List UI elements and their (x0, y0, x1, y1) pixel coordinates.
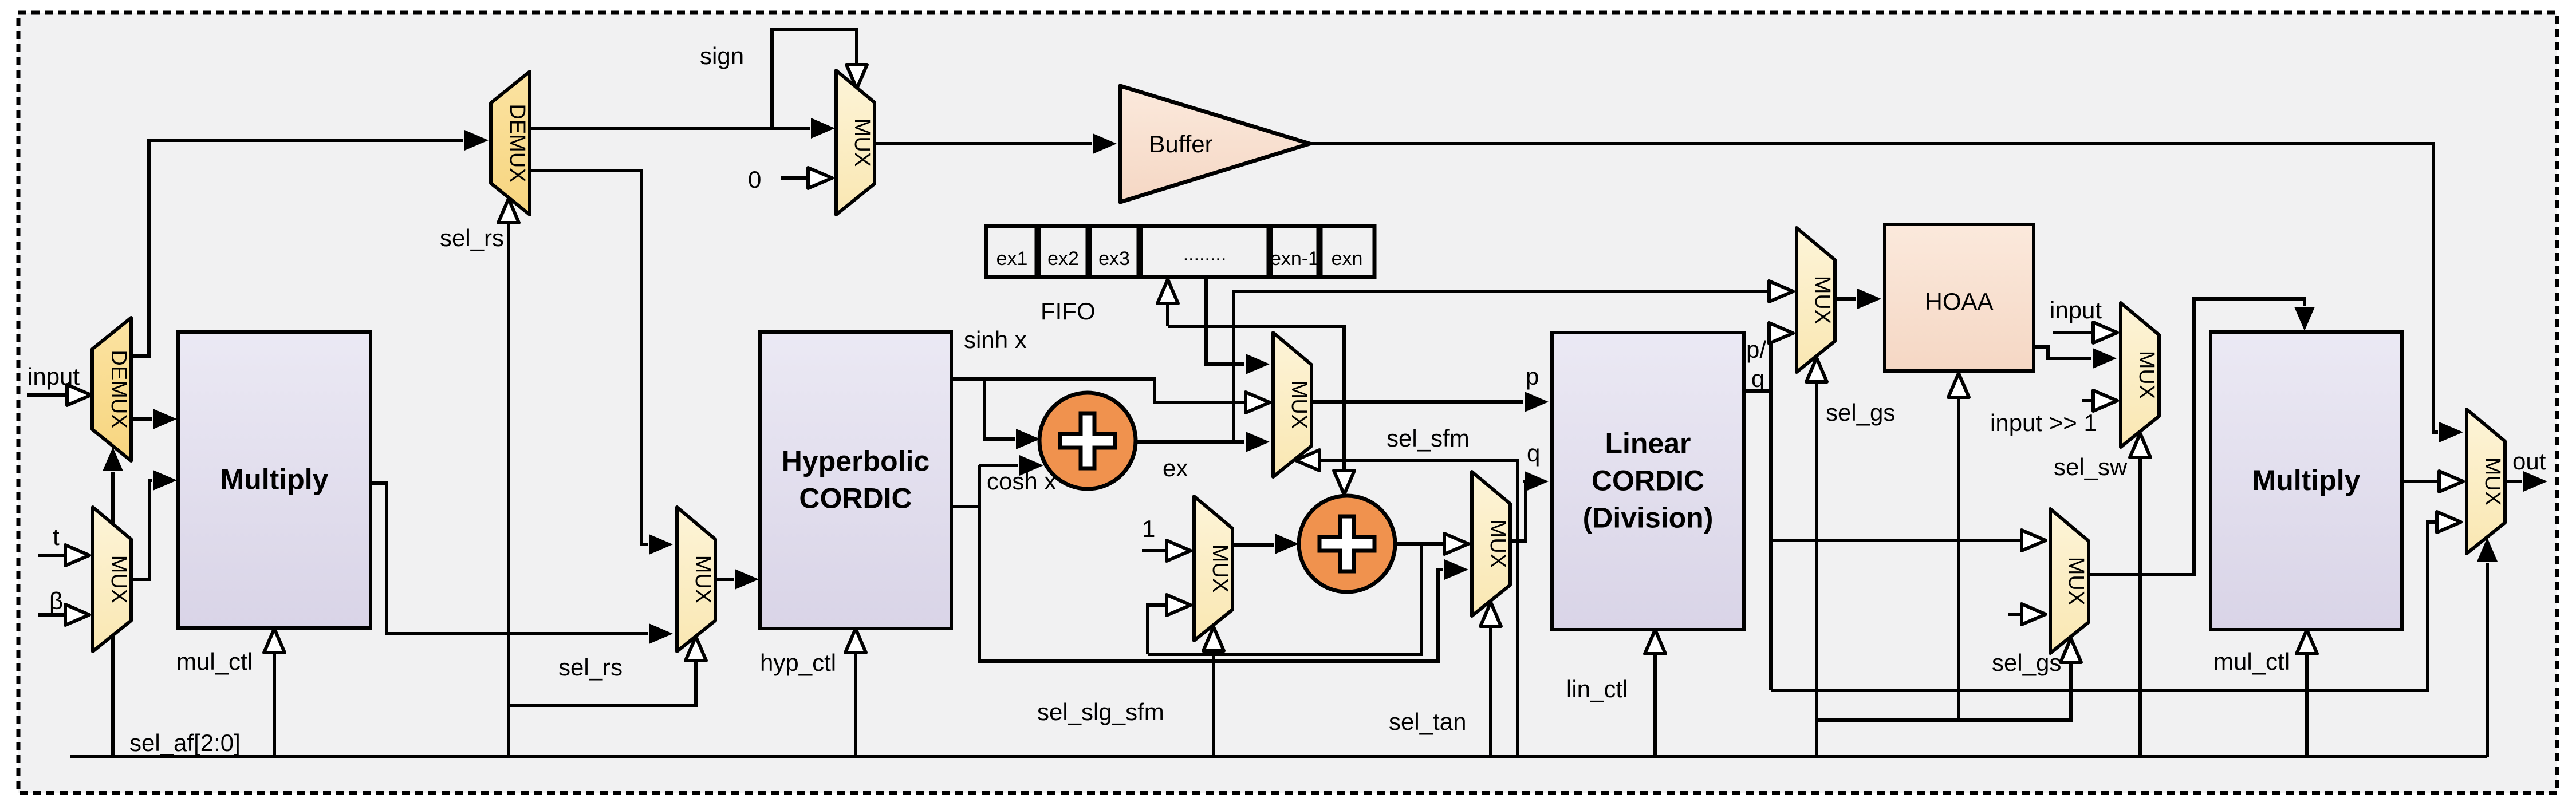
svg-text:p/: p/ (1746, 336, 1766, 363)
svg-text:sel_gs: sel_gs (1992, 649, 2061, 676)
wire adder A2 out to MUX U6 (1395, 542, 1443, 546)
wire sel_sfm to MUX U4 select (1321, 460, 1518, 757)
arrowhead input into MUX U8q (2093, 322, 2117, 343)
wire input stub to MUX U8q (2053, 331, 2092, 334)
wire Multiply M2 out to MUX U10 (2402, 480, 2438, 483)
arrowhead into MUX U5 input2 (1167, 595, 1191, 615)
svg-text:sel_rs: sel_rs (440, 224, 504, 251)
arrowhead into MUX U8q input2 (2093, 348, 2117, 369)
arrowhead into MUX U8 input1 (2022, 530, 2046, 551)
svg-text:Multiply: Multiply (220, 464, 329, 496)
arrowhead HOAA control (1948, 373, 1969, 397)
wire MUX U9 out loop to Multiply M2 (2089, 299, 2305, 575)
svg-text:t: t (53, 523, 60, 550)
wire MUX U10 out (2505, 480, 2522, 483)
wire mul_ctl to Multiply M2 (2305, 655, 2309, 757)
wire sel_gs branch to HOAA (1957, 398, 1960, 720)
svg-text:β: β (49, 587, 63, 614)
arrowhead into MUX U10 input3 (2437, 512, 2461, 532)
wire pq branch to MUX U10 (1771, 522, 2436, 690)
wire lin_ctl to Linear CORDIC (1653, 655, 1657, 757)
wire input stub to DEMUX1 (27, 393, 66, 397)
wire adder A1 out to MUX U4 (1136, 440, 1244, 444)
svg-text:lin_ctl: lin_ctl (1566, 675, 1628, 702)
arrowhead MUX U3 select (686, 637, 706, 661)
svg-text:input: input (2050, 297, 2102, 323)
mux U3 sel_rs (677, 507, 715, 651)
svg-text:........: ........ (1183, 243, 1227, 265)
arrowhead FIFO into MUX U4 input1 (1246, 354, 1270, 374)
buffer B1 (1120, 86, 1310, 202)
wire select riser to MUX U10 (2486, 563, 2489, 757)
svg-text:MUX: MUX (2064, 557, 2088, 605)
wire FIFO out to MUX U4 (1206, 277, 1244, 364)
arrowhead out (2523, 471, 2547, 492)
svg-text:sign: sign (700, 42, 744, 69)
svg-text:p: p (1526, 363, 1539, 390)
wire MUX U1 out to Multiply M1 (131, 480, 152, 579)
wire sinh x to MUX U4 (951, 379, 1244, 402)
arrowhead ex into MUX U7 input1 (1769, 281, 1793, 302)
wire cosh x from block (951, 505, 979, 508)
wire HOAA out to MUX U8q (2034, 347, 2091, 358)
arrowhead into MUX U6 input2 (1444, 559, 1468, 580)
svg-text:DEMUX: DEMUX (107, 350, 131, 428)
wire pq out of Linear CORDIC (1744, 389, 1771, 393)
mux U6 sel_tan (1472, 472, 1510, 616)
wire sign loop to MUX U2 select (772, 30, 857, 128)
arrowhead into MUX U6 input1 (1444, 534, 1468, 554)
arrowhead lin_ctl (1645, 630, 1665, 654)
arrowhead into MUX U10 input1 (2439, 422, 2463, 442)
svg-text:sel_tan: sel_tan (1389, 708, 1466, 735)
arrowhead into MUX U3 input2 (649, 623, 673, 644)
svg-text:sel_sfm: sel_sfm (1387, 425, 1470, 452)
svg-text:q: q (1751, 365, 1764, 392)
block HOAA (1885, 224, 2034, 371)
wire stub to MUX U9 input2 (2008, 613, 2020, 616)
arrowhead beta into MUX U1 (65, 604, 89, 625)
mux U10 out (2467, 409, 2505, 554)
svg-text:Multiply: Multiply (2252, 464, 2361, 496)
svg-text:mul_ctl: mul_ctl (176, 648, 253, 675)
wire MUX U4 out p to Linear CORDIC (1311, 400, 1523, 404)
arrowhead 1 into MUX U5 (1167, 540, 1191, 561)
wire pq branch to MUX U8 (1771, 539, 2020, 542)
wire DEMUX2 out1 to MUX U2 (530, 127, 810, 130)
arrowhead hyp_ctl (845, 629, 866, 653)
wire sel_sw to MUX U8q select (2138, 459, 2142, 757)
wire Buffer out to MUX U10 (1310, 144, 2438, 432)
wire MUX U3 out to Hyperbolic CORDIC (715, 578, 734, 581)
wire MUX U2 out to Buffer (875, 142, 1092, 145)
svg-text:MUX: MUX (107, 555, 131, 603)
wire t stub (38, 554, 64, 557)
svg-text:sel_gs: sel_gs (1826, 399, 1895, 426)
wire sel_gs branch to MUX U9 select (1817, 663, 2071, 720)
svg-text:(Division): (Division) (1583, 502, 1714, 534)
arrowhead sinh into MUX U4 input2 (1246, 392, 1270, 413)
wire sel_tan to MUX U6 select (1489, 627, 1492, 757)
svg-text:input >> 1: input >> 1 (1990, 409, 2097, 436)
svg-text:DEMUX: DEMUX (505, 104, 529, 182)
wire to FIFO write (1166, 305, 1169, 326)
arrowhead into MUX U2 input1 (811, 118, 835, 139)
arrowhead into adder A1 input2 (1019, 455, 1043, 476)
wire adder A2 feedback to MUX U5 (1148, 544, 1421, 654)
wire Multiply M1 out to MUX U3 (371, 483, 648, 634)
wire mul_ctl to Multiply M1 (273, 654, 276, 757)
arrowhead p into Linear CORDIC (1525, 392, 1549, 412)
wire hyp_ctl to Hyperbolic CORDIC (854, 654, 857, 757)
wire FIFO loop to adder A2 (1168, 326, 1344, 469)
svg-text:ex1: ex1 (996, 248, 1028, 270)
wire MUX U7 out to HOAA (1835, 297, 1856, 301)
svg-text:ex3: ex3 (1098, 248, 1130, 270)
wire feedback riser to MUX U5 input2 (1148, 605, 1165, 654)
mux U7 sel_gs (1797, 228, 1835, 372)
svg-text:sinh x: sinh x (964, 326, 1027, 353)
wire input shift stub (2082, 399, 2092, 402)
wire DEMUX1 out1 to DEMUX2 (131, 140, 463, 356)
svg-text:sel_slg_sfm: sel_slg_sfm (1037, 698, 1164, 725)
svg-text:MUX: MUX (1287, 381, 1311, 429)
adder A1 (1039, 393, 1136, 489)
block Linear CORDIC (1552, 333, 1744, 630)
svg-text:FIFO: FIFO (1041, 298, 1096, 325)
arrowhead into MUX U9 input2 (2022, 604, 2046, 625)
arrowhead mul_ctl into Multiply M1 (264, 629, 285, 653)
arrowhead MUX U6 select (1480, 602, 1501, 626)
fifo register chain (986, 226, 1374, 277)
svg-text:hyp_ctl: hyp_ctl (760, 649, 836, 676)
wire cosh branch to adder A1 (979, 464, 1018, 467)
arrowhead into MUX U3 input1 (649, 534, 673, 555)
svg-text:exn: exn (1332, 248, 1363, 270)
wire MUX U6 out q to Linear CORDIC (1510, 481, 1526, 541)
wire sel line to DEMUX1 select (111, 472, 115, 757)
svg-text:MUX: MUX (1208, 544, 1232, 592)
arrowhead into Hyperbolic CORDIC (735, 569, 759, 590)
arrowhead input into DEMUX1 (67, 385, 91, 405)
wire beta stub (38, 613, 64, 617)
wire sinh branch to adder A1 (984, 379, 1015, 439)
svg-text:CORDIC: CORDIC (799, 483, 912, 515)
arrowhead DEMUX1 select (103, 447, 123, 471)
svg-text:MUX: MUX (850, 118, 874, 167)
svg-text:MUX: MUX (1810, 276, 1834, 324)
wire sel_gs to MUX U7 select (1815, 383, 1818, 757)
svg-text:MUX: MUX (1486, 520, 1510, 568)
arrowhead DEMUX2 select (498, 199, 519, 223)
arrowhead MUX U4 select (1295, 450, 1319, 471)
svg-text:Hyperbolic: Hyperbolic (782, 445, 929, 477)
svg-text:CORDIC: CORDIC (1592, 465, 1704, 497)
arrowhead 0 into MUX U2 (808, 168, 832, 188)
arrowhead mul_ctl into Multiply M2 (2297, 630, 2317, 654)
demux D1 (92, 318, 131, 461)
arrowhead into adder A2 (1275, 534, 1299, 554)
svg-text:1: 1 (1142, 515, 1155, 542)
demux D2 (491, 72, 530, 215)
wire sel_rs to DEMUX2 select (507, 224, 510, 757)
arrowhead pq into MUX U7 input2 (1769, 323, 1793, 343)
wire sel_slg_sfm to MUX U5 select (1212, 652, 1215, 757)
arrowhead into HOAA (1857, 289, 1881, 309)
svg-text:input: input (27, 363, 80, 390)
arrowhead MUX U10 select (2477, 538, 2498, 562)
adder A2 (1299, 496, 1395, 592)
arrowhead ex into MUX U4 input3 (1246, 432, 1270, 452)
block Hyperbolic CORDIC (760, 332, 951, 629)
wire 0 stub (781, 176, 807, 180)
svg-text:sel_sw: sel_sw (2054, 453, 2128, 480)
arrowhead into Buffer (1093, 133, 1117, 154)
svg-text:Buffer: Buffer (1149, 131, 1212, 157)
svg-text:ex: ex (1163, 455, 1188, 481)
wire MUX U5 out to adder A2 (1232, 543, 1274, 547)
mux U8q sel_sw (2121, 303, 2159, 447)
arrowhead into DEMUX2 (464, 130, 489, 151)
svg-text:cosh x: cosh x (987, 468, 1056, 495)
mux U2 sign (836, 70, 875, 215)
arrowhead MUX U2 select (846, 65, 867, 89)
arrowhead into adder A2 top (1334, 471, 1354, 495)
svg-text:0: 0 (748, 166, 761, 193)
svg-text:out: out (2512, 448, 2546, 475)
arrowhead into MUX U10 input2 (2439, 471, 2463, 492)
svg-text:sel_af[2:0]: sel_af[2:0] (129, 729, 241, 756)
svg-text:exn-1: exn-1 (1270, 248, 1319, 270)
arrowhead input shift into MUX U8q (2093, 390, 2117, 411)
mux U5 sel_slg_sfm (1194, 496, 1232, 641)
mux U1 t beta (93, 507, 131, 651)
wire pq riser (1768, 333, 1771, 690)
arrowhead into Multiply M1 input2 (153, 470, 177, 491)
arrowhead MUX U8q select (2130, 433, 2150, 457)
svg-text:Linear: Linear (1605, 428, 1691, 460)
arrowhead into FIFO (1157, 279, 1178, 303)
arrowhead into adder A1 input1 (1016, 429, 1040, 449)
svg-text:HOAA: HOAA (1925, 288, 1993, 315)
wire sel_af bus (70, 755, 2487, 758)
arrowhead q into Linear CORDIC (1525, 471, 1549, 492)
arrowhead MUX U9 select (2061, 638, 2081, 662)
arrowhead into Multiply M1 input1 (153, 409, 177, 429)
svg-text:q: q (1527, 440, 1540, 467)
mux U4 sel_sfm (1273, 333, 1311, 477)
arrowhead MUX U7 select (1806, 358, 1827, 382)
block Multiply M1 (178, 332, 371, 628)
wire DEMUX2 out2 to MUX U3 (530, 171, 648, 544)
arrowhead into Multiply M2 top (2294, 307, 2315, 331)
wire 1 stub (1142, 549, 1165, 552)
svg-text:MUX: MUX (2134, 351, 2159, 399)
svg-text:MUX: MUX (691, 555, 715, 603)
mux U9 sel_gs2 (2050, 509, 2089, 653)
arrowhead MUX U5 select (1203, 627, 1224, 651)
svg-text:MUX: MUX (2480, 457, 2504, 505)
arrowhead t into MUX U1 (65, 545, 89, 566)
svg-text:sel_rs: sel_rs (558, 654, 623, 681)
wire cosh branch to MUX U6 (979, 465, 1443, 661)
wire DEMUX1 out2 to Multiply M1 (131, 417, 152, 421)
svg-text:mul_ctl: mul_ctl (2213, 648, 2290, 675)
svg-text:ex2: ex2 (1047, 248, 1079, 270)
block Multiply M2 (2211, 332, 2402, 630)
wire sel_rs branch to MUX U3 select (509, 662, 696, 705)
wire ex branch to MUX U7 (1234, 291, 1768, 442)
